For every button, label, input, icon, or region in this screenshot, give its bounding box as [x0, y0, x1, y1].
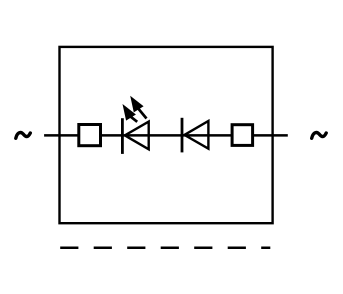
wire — [44, 134, 288, 137]
node AC right (~) — [312, 133, 327, 139]
resistor R2 (box symbol) — [232, 125, 253, 146]
resistor R1 (box symbol) — [79, 125, 101, 146]
node AC left (~) — [16, 133, 30, 139]
LED D1 arrows — [123, 96, 147, 122]
diode D2 (cathode bar + triangle) — [182, 118, 208, 153]
dashed line (DIN rail / separator) — [60, 247, 270, 250]
LED D1 (diode, cathode bar + triangle) — [122, 118, 148, 154]
component box outline — [60, 47, 273, 223]
